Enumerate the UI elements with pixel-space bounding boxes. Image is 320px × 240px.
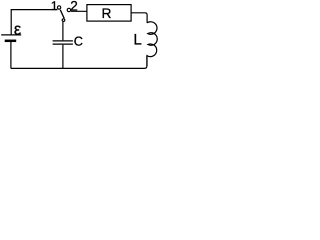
switch pole circle <box>62 19 65 22</box>
wire capacitor lower lead <box>62 45 64 69</box>
svg-text:R: R <box>102 6 112 21</box>
svg-text:1: 1 <box>51 0 58 13</box>
battery long thin plate (positive) <box>1 34 21 36</box>
wire top rail from battery to switch contact 1 <box>11 10 57 35</box>
svg-text:ε: ε <box>14 21 22 39</box>
battery short thick plate (negative) <box>5 40 17 43</box>
switch contact 1 circle <box>57 6 60 9</box>
wire battery bottom lead <box>10 42 12 68</box>
wire capacitor branch upper lead <box>62 22 64 41</box>
wire bottom rail <box>11 56 147 69</box>
svg-text:C: C <box>74 34 83 49</box>
switch contact 2 circle <box>67 8 70 11</box>
switch lever from contact 1 to pole <box>60 10 64 19</box>
wire resistor to inductor top corner <box>131 13 147 23</box>
inductor L coil <box>147 22 157 66</box>
resistor R box <box>87 5 131 22</box>
svg-text:L: L <box>133 32 141 49</box>
capacitor C top plate <box>53 40 73 42</box>
wire contact 2 to resistor box <box>71 10 87 12</box>
capacitor C bottom plate <box>53 43 73 45</box>
